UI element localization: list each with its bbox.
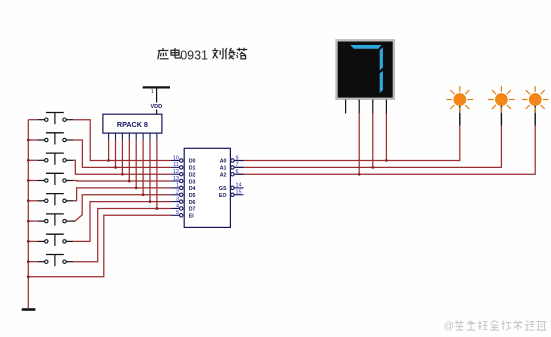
svg-text:11: 11 [173, 162, 179, 168]
svg-text:10: 10 [173, 155, 179, 161]
svg-text:D6: D6 [189, 200, 196, 206]
svg-text:D7: D7 [189, 207, 196, 213]
svg-text:6: 6 [236, 169, 239, 175]
svg-text:4: 4 [176, 203, 179, 209]
svg-text:13: 13 [173, 176, 179, 182]
svg-text:9: 9 [236, 155, 239, 161]
svg-text:A2: A2 [220, 172, 227, 178]
svg-text:3: 3 [176, 196, 179, 202]
svg-text:EI: EI [189, 214, 195, 220]
svg-text:1: 1 [176, 183, 179, 189]
svg-text:14: 14 [236, 183, 242, 189]
svg-text:5: 5 [176, 210, 179, 216]
svg-text:RPACK 8: RPACK 8 [117, 120, 148, 129]
svg-text:VDD: VDD [151, 104, 163, 110]
svg-text:D5: D5 [189, 193, 196, 199]
svg-text:7: 7 [236, 162, 239, 168]
svg-text:A1: A1 [220, 166, 227, 172]
svg-text:GS: GS [219, 186, 227, 192]
svg-text:15: 15 [236, 190, 242, 196]
svg-text:12: 12 [173, 169, 179, 175]
svg-text:D4: D4 [189, 186, 196, 192]
svg-text:A0: A0 [220, 159, 227, 165]
svg-text:1: 1 [151, 89, 154, 95]
svg-text:0931: 0931 [180, 48, 208, 62]
svg-text:D3: D3 [189, 179, 196, 185]
svg-text:2: 2 [176, 190, 179, 196]
svg-text:D2: D2 [189, 172, 196, 178]
svg-text:D1: D1 [189, 166, 196, 172]
svg-text:@: @ [444, 320, 455, 332]
svg-text:EO: EO [219, 193, 227, 199]
svg-text:D0: D0 [189, 159, 196, 165]
